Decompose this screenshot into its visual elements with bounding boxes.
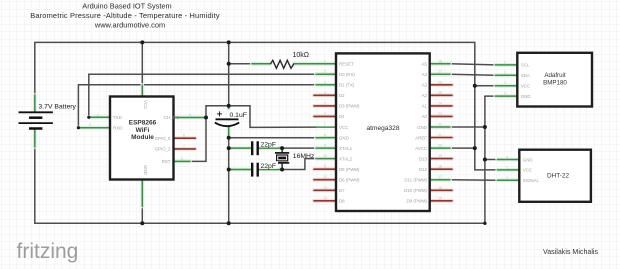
ESP VCC leg — [141, 85, 143, 96]
svg-text:1: 1 — [504, 60, 506, 64]
svg-text:XTAL2: XTAL2 — [339, 156, 353, 161]
svg-text:Vasilakis Michalis: Vasilakis Michalis — [543, 248, 599, 256]
svg-text:BMP180: BMP180 — [543, 80, 567, 87]
svg-text:15: 15 — [438, 196, 442, 200]
svg-text:RESET: RESET — [339, 62, 354, 67]
svg-text:8: 8 — [181, 157, 183, 161]
svg-text:TXD: TXD — [113, 115, 122, 120]
pin labels atmega328 right — [404, 62, 427, 204]
svg-text:CH_PD: CH_PD — [164, 115, 181, 121]
svg-text:1: 1 — [324, 59, 326, 63]
svg-text:D11 (PWM): D11 (PWM) — [404, 178, 427, 183]
svg-text:13: 13 — [323, 186, 327, 190]
atmega right legs — [430, 63, 450, 65]
pin numbers atmega328 left (1-14) — [323, 59, 327, 158]
atmega D2 stub — [314, 94, 336, 96]
plus sign of C1 — [217, 111, 222, 116]
svg-text:1: 1 — [97, 113, 99, 117]
wire BMP VCC branch — [475, 85, 496, 87]
svg-text:SDA: SDA — [521, 73, 530, 78]
svg-text:D8: D8 — [339, 199, 345, 204]
ESP GPIO_0 stub — [174, 137, 196, 139]
atmega A3 stub — [430, 84, 452, 86]
svg-text:D7: D7 — [339, 188, 345, 193]
title text block — [30, 1, 220, 29]
svg-text:D13: D13 — [419, 156, 428, 161]
svg-text:WiFi: WiFi — [136, 127, 150, 134]
value label 0.1uF — [227, 109, 249, 118]
svg-text:7: 7 — [324, 123, 326, 127]
svg-text:11: 11 — [323, 165, 327, 169]
svg-text:A4: A4 — [422, 72, 428, 77]
value label 22pF (C3) — [260, 161, 279, 169]
svg-text:16: 16 — [438, 186, 442, 190]
svg-text:fritzing: fritzing — [17, 240, 79, 263]
svg-text:VCC: VCC — [521, 84, 530, 89]
svg-text:20: 20 — [438, 144, 442, 148]
atmega D8 stub — [314, 200, 336, 202]
svg-text:AVCC: AVCC — [415, 146, 427, 151]
svg-text:0.1uF: 0.1uF — [230, 112, 247, 119]
wire atmega GND right to GND vertical — [450, 126, 485, 128]
svg-text:VCC: VCC — [143, 100, 148, 109]
svg-text:GPIO_0: GPIO_0 — [155, 136, 171, 141]
wire GND vertical right (BMP GND / DHT GND / rail) — [485, 95, 495, 97]
svg-text:D12: D12 — [419, 167, 428, 172]
svg-text:GND: GND — [339, 135, 349, 140]
svg-text:GND: GND — [521, 94, 531, 99]
atmega D12 stub — [430, 168, 452, 170]
atmega D7 stub — [314, 189, 336, 191]
svg-text:6: 6 — [324, 112, 326, 116]
part label ESP8266 WiFi Module — [129, 120, 157, 141]
battery - leg — [34, 130, 36, 148]
atmega D9 stub — [430, 200, 452, 202]
atmega D6 stub — [314, 179, 336, 181]
ESP GPIO_2 stub — [174, 148, 196, 150]
atmega A1 stub — [430, 105, 452, 107]
svg-text:RST: RST — [162, 159, 171, 164]
wire VCC vertical right — [475, 42, 498, 169]
pin numbers atmega328 right (15-28) — [438, 59, 442, 179]
part label Adafruit BMP180 — [543, 72, 567, 87]
atmega D5 stub — [314, 168, 336, 170]
wire CH_PD / RST to VCC — [190, 106, 229, 162]
atmega left legs — [316, 73, 336, 75]
svg-text:SIGNAL: SIGNAL — [523, 178, 540, 183]
wire ESP GND drop — [141, 180, 143, 224]
wire AVCC branch — [450, 147, 475, 149]
svg-text:21: 21 — [438, 133, 442, 137]
svg-text:6: 6 — [183, 134, 185, 138]
svg-text:9: 9 — [324, 144, 326, 148]
ESP RXD leg — [78, 127, 110, 129]
wire VCC top rail — [35, 42, 475, 112]
unconnected pin stubs (red) — [174, 85, 453, 201]
svg-text:23: 23 — [438, 112, 442, 116]
ESP TXD leg — [89, 116, 110, 118]
svg-text:14: 14 — [323, 196, 327, 200]
atmega D13 stub — [430, 158, 452, 160]
wire ESP TXD to atmega D0 — [89, 74, 316, 117]
wire A5 to BMP SCL — [450, 64, 495, 65]
svg-text:D6 (PWM): D6 (PWM) — [339, 178, 360, 183]
svg-text:D5 (PWM): D5 (PWM) — [339, 167, 360, 172]
svg-text:D1 (TX): D1 (TX) — [339, 83, 355, 88]
capacitor C1 0.1uF (polarized) — [215, 119, 239, 126]
svg-text:A0: A0 — [422, 114, 428, 119]
value label 22pF (C2) — [260, 140, 279, 148]
svg-text:Adafruit: Adafruit — [544, 72, 566, 79]
wire VCC to atmega VCC pin — [229, 106, 316, 128]
ESP CH_PD leg — [174, 117, 207, 119]
svg-text:27: 27 — [438, 70, 442, 74]
svg-text:28: 28 — [438, 59, 442, 63]
wire ESP VCC drop — [141, 42, 143, 85]
svg-text:1: 1 — [506, 165, 508, 169]
svg-text:GPIO_2: GPIO_2 — [155, 147, 171, 152]
svg-text:24: 24 — [438, 101, 442, 105]
svg-text:22: 22 — [438, 123, 442, 127]
svg-text:GND: GND — [523, 157, 533, 162]
wire DHT GND branch — [485, 159, 497, 161]
svg-text:3.7V Battery: 3.7V Battery — [39, 104, 77, 111]
sensor Adafruit BMP180 box — [517, 53, 592, 107]
capacitor C2 22pF legs — [229, 147, 251, 149]
svg-text:25: 25 — [438, 91, 442, 95]
svg-text:Arduino Based IOT System: Arduino Based IOT System — [82, 1, 171, 10]
svg-text:D9 (PWM): D9 (PWM) — [407, 199, 428, 204]
green pin legs — [35, 64, 520, 207]
svg-text:GND: GND — [417, 125, 427, 130]
IC module ESP8266 box — [110, 97, 174, 180]
wire XTAL1 net — [282, 147, 316, 149]
svg-text:2: 2 — [324, 70, 326, 74]
svg-text:10kΩ: 10kΩ — [293, 52, 310, 59]
svg-text:atmega328: atmega328 — [367, 125, 400, 132]
svg-text:D0 (RX): D0 (RX) — [339, 72, 355, 77]
svg-text:18: 18 — [438, 165, 442, 169]
svg-text:A5: A5 — [422, 62, 428, 67]
wire GND bottom rail — [35, 96, 485, 223]
svg-text:SCL: SCL — [521, 63, 530, 68]
resistor R1 10k zigzag — [271, 60, 294, 68]
wire RESET net (10k pullup) — [229, 63, 252, 65]
IC U1 atmega328 box — [336, 53, 430, 211]
battery + leg — [34, 95, 36, 111]
svg-text:16MHz: 16MHz — [293, 153, 315, 160]
wire A4 to BMP SDA — [450, 74, 495, 75]
svg-text:D10 (PWM): D10 (PWM) — [404, 188, 427, 193]
sensor DHT-22 box — [519, 150, 591, 202]
wire GND vertical caps/xtal — [228, 138, 230, 224]
DHT-22 legs — [497, 159, 519, 161]
pin numbers ESP8266 / BMP180 / DHT-22 — [89, 60, 508, 179]
BMP180 legs — [495, 64, 517, 66]
svg-text:2: 2 — [504, 71, 506, 75]
wire GND to atmega GND pin — [229, 137, 316, 139]
svg-text:AREF: AREF — [415, 135, 427, 140]
resistor R1 legs — [252, 63, 271, 65]
pin labels DHT-22 — [523, 157, 540, 183]
svg-text:22pF: 22pF — [261, 141, 277, 148]
svg-text:12: 12 — [323, 175, 327, 179]
svg-text:A2: A2 — [422, 93, 428, 98]
svg-text:A1: A1 — [422, 104, 428, 109]
atmega D4 stub — [314, 115, 336, 117]
capacitor C3 22pF legs — [229, 169, 251, 171]
svg-text:26: 26 — [438, 80, 442, 84]
atmega AREF stub — [430, 137, 452, 139]
ESP RST leg — [174, 160, 191, 162]
svg-text:A3: A3 — [422, 83, 428, 88]
pin labels BMP180 — [521, 63, 531, 99]
svg-text:3: 3 — [504, 81, 506, 85]
wire VCC vertical to 0.1uF — [228, 42, 230, 119]
pin labels atmega328 left — [339, 62, 360, 204]
svg-text:4: 4 — [506, 155, 508, 159]
svg-text:19: 19 — [438, 154, 442, 158]
svg-text:Barometric Pressure -Altitude: Barometric Pressure -Altitude - Temperat… — [30, 11, 220, 20]
svg-text:17: 17 — [438, 175, 442, 179]
svg-text:VCC: VCC — [523, 168, 532, 173]
svg-text:5: 5 — [324, 101, 326, 105]
svg-text:22pF: 22pF — [261, 163, 277, 170]
svg-text:D4: D4 — [339, 114, 345, 119]
svg-text:5: 5 — [189, 113, 191, 117]
crystal Y1 16MHz — [275, 148, 289, 169]
pin labels ESP8266 — [113, 100, 180, 175]
svg-text:VCC: VCC — [339, 125, 348, 130]
battery BT1 3.7V plates — [19, 112, 53, 128]
capacitor C1 0.1uF legs — [228, 106, 230, 120]
atmega D3 stub — [314, 105, 336, 107]
wire ESP RXD to atmega D1 — [78, 85, 316, 128]
svg-text:D3 (PWM): D3 (PWM) — [339, 104, 360, 109]
atmega A2 stub — [430, 94, 452, 96]
svg-text:Module: Module — [131, 134, 154, 141]
capacitor C3 22pF plates — [252, 163, 258, 177]
atmega D10 stub — [430, 189, 452, 191]
svg-text:RXD: RXD — [113, 125, 122, 130]
svg-text:7: 7 — [183, 144, 185, 148]
svg-text:2: 2 — [506, 176, 508, 180]
wire XTAL2 net — [282, 159, 316, 170]
svg-text:4: 4 — [324, 91, 326, 95]
svg-text:D2: D2 — [339, 93, 345, 98]
wire D11 to DHT SIGNAL — [450, 179, 497, 182]
svg-text:XTAL1: XTAL1 — [339, 146, 353, 151]
svg-text:DHT-22: DHT-22 — [547, 173, 569, 180]
svg-text:8: 8 — [324, 133, 326, 137]
svg-text:10: 10 — [323, 154, 327, 158]
svg-text:4: 4 — [504, 92, 506, 96]
svg-text:www.ardumotive.com: www.ardumotive.com — [94, 21, 165, 30]
capacitor C2 22pF plates — [252, 141, 258, 155]
ESP GND leg — [141, 181, 143, 207]
atmega A0 stub — [430, 115, 452, 117]
svg-text:ESP8266: ESP8266 — [129, 120, 157, 127]
svg-text:2: 2 — [89, 123, 91, 127]
svg-text:3: 3 — [324, 80, 326, 84]
svg-text:GND: GND — [143, 165, 148, 175]
